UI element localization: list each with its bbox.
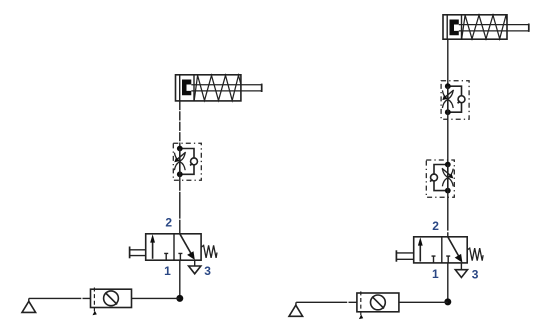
rod end tick: [528, 24, 530, 32]
enclosure (dash-dot box): [173, 143, 201, 180]
shutoff symbol circle: [104, 291, 119, 306]
throttle adjustment arrow (mirrored, points down-right): [442, 168, 450, 175]
check-valve bypass loop wire: [180, 149, 194, 175]
node: junction dot bottom: [177, 171, 183, 177]
rod end tick: [261, 84, 263, 92]
valve position divider: [441, 237, 443, 263]
actuator mark: [359, 315, 363, 320]
svg-text:3: 3: [472, 267, 479, 281]
throttle restriction arcs: [174, 153, 185, 171]
throttle restriction arcs: [442, 90, 453, 108]
shutoff symbol circle: [371, 295, 386, 310]
node: junction dot bottom: [445, 109, 451, 115]
cylinder body: [176, 75, 241, 101]
compressed air source 0Z1: [22, 298, 36, 312]
actuator dash line: [93, 288, 95, 313]
svg-text:2: 2: [165, 215, 172, 229]
svg-text:3: 3: [204, 264, 211, 278]
node: supply junction dot: [176, 295, 183, 302]
node: supply junction dot: [444, 298, 451, 305]
shutoff valve 0V2: [357, 291, 399, 319]
cylinder 1A (single-acting, spring return): [176, 75, 262, 101]
pushbutton actuator (left side): [395, 250, 397, 261]
cylinder 2A (single-acting, spring return): [443, 15, 529, 39]
throttle line through main path: [179, 149, 181, 175]
svg-text:1: 1: [164, 264, 171, 278]
flow arrow (left box, 1 to 2): [419, 244, 421, 262]
wire: shutoff valve to junction: [399, 301, 448, 303]
check valve (ball): [191, 158, 198, 165]
wire: flow control 2V3 to flow control 2V2: [447, 112, 449, 164]
valve position divider: [173, 234, 175, 260]
blocked port T (right box, port 1): [178, 253, 182, 260]
actuator dash line: [360, 291, 362, 316]
wire: valve 1V1 port 1 down to supply node: [179, 260, 181, 298]
flow arrow (left box, 1 to 2): [152, 241, 154, 259]
check valve (ball): [431, 174, 438, 181]
check valve seat: [190, 163, 192, 165]
node: junction dot top: [445, 83, 451, 89]
wire: flow control 2V2 to valve 2V1 port 2: [447, 191, 449, 237]
wire: supply line from source to shutoff valve: [296, 301, 357, 303]
svg-text:2: 2: [432, 219, 439, 233]
throttle adjustment arrow: [178, 152, 186, 159]
piston face line: [461, 15, 463, 39]
wire: cylinder 1A to flow control 1V2: [179, 101, 181, 147]
wire: valve 2V1 port 1 down to supply node: [447, 263, 449, 302]
throttle line through main path: [447, 165, 449, 191]
check valve seat: [458, 101, 460, 103]
shutoff slash: [372, 297, 384, 309]
throttle line through main path: [447, 86, 449, 112]
throttle restriction arcs: [442, 169, 453, 187]
node: junction dot top: [445, 162, 451, 168]
one-way flow control valve 2V3 (throttle left / check right): [441, 81, 469, 120]
valve body: [414, 237, 468, 263]
piston (black cup): [450, 20, 459, 36]
check valve (ball): [458, 96, 465, 103]
cylinder body: [443, 15, 507, 39]
wire: shutoff valve to junction: [132, 297, 180, 299]
node: junction dot top: [177, 146, 183, 152]
exhaust silencer triangle: [455, 270, 467, 278]
piston rod (two lines): [191, 84, 261, 86]
blocked port T (left box, port 3): [432, 256, 436, 263]
exhaust stub port 3: [460, 263, 462, 270]
shutoff valve body: [91, 289, 132, 307]
wire: flow control 1V2 to valve 1V1 port 2: [179, 174, 181, 234]
exhaust path diagonal 2 to 3 (right box): [448, 237, 460, 258]
throttle adjustment arrow: [446, 90, 454, 97]
shutoff slash: [105, 293, 117, 305]
valve body: [146, 234, 201, 260]
pushbutton actuator (left side): [129, 247, 131, 259]
piston rod (two lines): [459, 24, 529, 26]
return spring (right side): [201, 245, 217, 258]
enclosure (dash-dot box): [441, 81, 469, 120]
3/2-way valve 2V1 (pushbutton, spring return): [396, 219, 483, 281]
check-valve bypass loop wire: [448, 86, 462, 112]
piston face line: [193, 75, 195, 101]
exhaust silencer triangle: [189, 266, 201, 274]
piston (black cup): [182, 80, 191, 96]
shutoff valve body: [357, 293, 399, 312]
shutoff valve 0V1: [91, 288, 132, 316]
return spring zigzag: [462, 15, 507, 39]
cylinder left end-cap divider: [446, 15, 448, 39]
actuator mark: [93, 311, 97, 316]
exhaust stub port 3: [194, 260, 196, 266]
return spring zigzag: [194, 75, 241, 100]
wire: cylinder 2A to flow control 2V3: [447, 39, 449, 84]
blocked port T (left box, port 3): [164, 253, 168, 260]
exhaust path diagonal 2 to 3 (right box): [180, 234, 192, 255]
node: junction dot bottom: [445, 188, 451, 194]
3/2-way valve 1V1 (pushbutton, spring return): [130, 215, 217, 278]
one-way flow control valve 2V2 (check left / throttle right): [426, 160, 454, 197]
check-valve bypass loop wire: [434, 165, 448, 191]
return spring (right side): [467, 248, 483, 261]
cylinder left end-cap divider: [179, 75, 181, 101]
blocked port T (right box, port 1): [446, 256, 450, 263]
compressed air source 0Z2: [289, 302, 303, 316]
check valve seat: [430, 179, 432, 181]
wire: supply line from source to shutoff valve: [29, 297, 91, 299]
svg-text:1: 1: [432, 267, 439, 281]
one-way flow control valve 1V2: [173, 143, 201, 180]
enclosure (dash-dot box): [426, 160, 454, 197]
